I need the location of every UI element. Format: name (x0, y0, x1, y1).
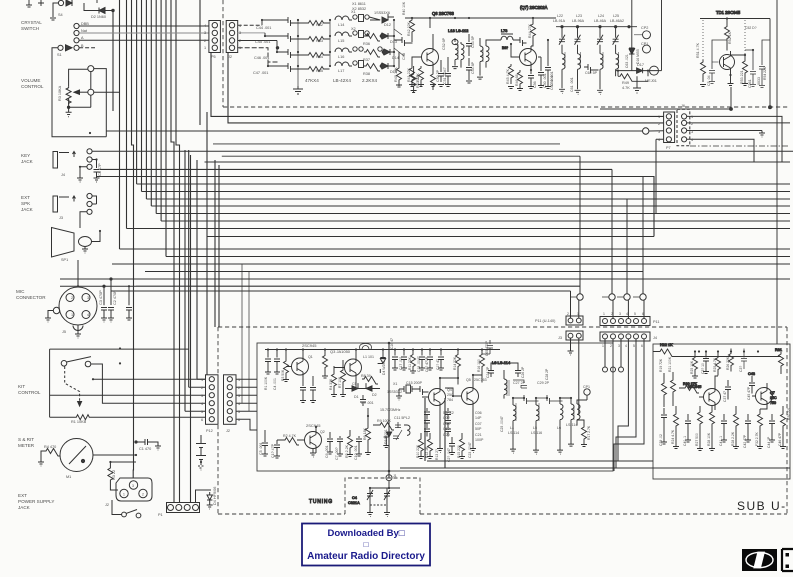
svg-text:D4 W2061: D4 W2061 (382, 359, 386, 375)
svg-text:1: 1 (71, 313, 73, 317)
R42 22K (410, 18, 415, 42)
svg-text:R54 22K: R54 22K (763, 66, 767, 80)
cap C3 470P (101, 286, 107, 322)
R4 33K / R7 10K (331, 366, 337, 397)
svg-text:4: 4 (87, 313, 89, 317)
svg-text:C16 47: C16 47 (390, 338, 394, 349)
top rail (700, 18, 770, 20)
svg-text:Downloaded By□: Downloaded By□ (328, 528, 405, 539)
svg-text:3: 3 (691, 130, 693, 134)
svg-text:L17: L17 (338, 69, 344, 73)
switch below (122, 512, 127, 517)
svg-text:R41 22K: R41 22K (407, 67, 411, 82)
C50 C51 caps (438, 60, 444, 87)
kit top wire (50, 348, 189, 350)
svg-text:R28 2.2K: R28 2.2K (731, 431, 735, 446)
svg-text:R25 4.7K: R25 4.7K (713, 357, 717, 372)
svg-text:C3 470P: C3 470P (99, 290, 103, 305)
svg-text:J3: J3 (59, 216, 63, 220)
hanging R/C left of Q1 (265, 350, 271, 375)
svg-text:R7 10K: R7 10K (338, 376, 342, 388)
svg-text:R53 221: R53 221 (740, 70, 744, 84)
svg-text:R1 10KB: R1 10KB (71, 420, 87, 424)
svg-text:Nat: Nat (81, 29, 88, 33)
svg-text:2: 2 (238, 386, 240, 390)
transistor Q1 (292, 358, 309, 375)
svg-text:JACK: JACK (18, 505, 31, 510)
bottom wire w/ D17 (616, 70, 662, 72)
svg-text:2: 2 (204, 39, 206, 43)
svg-text:C48: C48 (402, 53, 406, 60)
svg-text:B8?: B8? (502, 46, 508, 50)
svg-text:C54 8P: C54 8P (471, 61, 475, 74)
transistor Q5 (462, 388, 479, 405)
CP2 / CP1 circles (643, 31, 651, 39)
svg-text:1SS53X6: 1SS53X6 (374, 11, 390, 15)
svg-text:R43: R43 (416, 75, 420, 82)
svg-text:6: 6 (238, 418, 240, 422)
svg-text:X1 8611: X1 8611 (352, 2, 366, 6)
svg-text:C5 .04: C5 .04 (707, 75, 711, 86)
svg-text:C40 .1: C40 .1 (683, 436, 687, 446)
diode at S4 (66, 0, 72, 6)
svg-text:R32: R32 (316, 23, 323, 27)
svg-text:4: 4 (691, 138, 693, 142)
svg-text:POWER SUPPLY: POWER SUPPLY (18, 499, 54, 504)
D1 D2 pair (345, 383, 380, 391)
C12/C13 varicaps lower-left (393, 430, 402, 440)
svg-text:CP1: CP1 (641, 42, 648, 46)
svg-text:C61 .001: C61 .001 (570, 77, 574, 92)
C16/C17/R11/C18/C16b column (392, 350, 398, 371)
switch S4 (58, 0, 63, 5)
svg-text:784: 784 (447, 398, 453, 402)
R9 100K (373, 423, 394, 431)
svg-text:C44 .001: C44 .001 (256, 26, 271, 30)
svg-text:3: 3 (238, 394, 240, 398)
svg-text:C24 2P: C24 2P (486, 366, 490, 378)
diode D4 (207, 490, 212, 500)
svg-text:R28 10K: R28 10K (707, 432, 711, 446)
R44 27K (531, 22, 536, 46)
C43 (749, 376, 755, 394)
svg-text:KEY: KEY (21, 153, 30, 158)
right components C48 / R40 / R41 (394, 37, 413, 46)
svg-text:2: 2 (239, 39, 241, 43)
svg-text:L24: L24 (598, 14, 604, 18)
svg-text:C44 1P: C44 1P (767, 436, 771, 448)
svg-text:C60 .001: C60 .001 (550, 75, 554, 90)
svg-text:JACK: JACK (21, 159, 34, 164)
tuning dashed box (345, 478, 420, 514)
svg-text:6: 6 (642, 312, 644, 316)
svg-text:1: 1 (603, 312, 605, 316)
svg-text:5: 5 (238, 410, 240, 414)
svg-text:L1 101: L1 101 (363, 355, 374, 359)
svg-text:2.2KX4: 2.2KX4 (362, 78, 378, 83)
svg-text:5: 5 (633, 344, 635, 348)
transistor Q6 (422, 49, 439, 66)
svg-text:C8? 470P: C8? 470P (425, 356, 429, 372)
svg-text:TUNING: TUNING (309, 499, 333, 505)
svg-text:R24 4.7K: R24 4.7K (671, 429, 675, 444)
svg-text:(Q7) 2SC202A: (Q7) 2SC202A (520, 5, 548, 10)
C8 cap (94, 170, 100, 179)
svg-text:C07: C07 (475, 422, 482, 426)
svg-text:R12 1K: R12 1K (425, 446, 429, 458)
svg-text:MEJ01: MEJ01 (645, 79, 657, 83)
transistor Q7 (756, 388, 773, 405)
svg-text:14P: 14P (475, 416, 482, 420)
svg-text:KIT: KIT (18, 384, 25, 389)
svg-text:C4: C4 (352, 496, 357, 500)
svg-text:R15 220: R15 220 (457, 445, 461, 458)
svg-text:CP2: CP2 (641, 26, 648, 30)
svg-text:M1: M1 (66, 475, 71, 479)
ground S4 (50, 18, 56, 20)
L3 coil (504, 370, 507, 399)
svg-text:L5: L5 (533, 426, 537, 430)
drop to bus (730, 87, 732, 109)
svg-text:A: A (81, 36, 84, 40)
row feeds (262, 20, 286, 66)
svg-text:3: 3 (132, 484, 134, 488)
right components (731, 55, 749, 86)
svg-text:R13 2?: R13 2? (435, 449, 439, 460)
svg-text:C45 .001: C45 .001 (255, 40, 270, 44)
svg-text:EXT: EXT (18, 493, 27, 498)
svg-text:C39 .02: C39 .02 (659, 434, 663, 446)
svg-text:LS-114: LS-114 (566, 423, 577, 427)
D4 W2061 (378, 350, 386, 374)
svg-text:Q5: Q5 (466, 378, 471, 382)
switch pins (74, 23, 79, 28)
svg-text:C41 .1: C41 .1 (719, 436, 723, 446)
svg-text:15.7023MHz: 15.7023MHz (380, 408, 401, 412)
svg-text:1: 1 (658, 115, 660, 119)
svg-text:750: 750 (770, 401, 776, 405)
svg-text:D4 HF9/06: D4 HF9/06 (213, 487, 217, 505)
svg-text:R40 10K: R40 10K (402, 1, 406, 15)
svg-text:Q6 2SC763: Q6 2SC763 (432, 11, 455, 16)
svg-text:R45 4.7K: R45 4.7K (506, 68, 510, 84)
svg-text:P5: P5 (211, 55, 216, 59)
switch lever (67, 357, 92, 362)
svg-text:4: 4 (625, 344, 627, 348)
svg-text:C65 470P: C65 470P (485, 340, 489, 356)
svg-text:R46 68: R46 68 (515, 74, 519, 86)
svg-text:25C763: 25C763 (474, 378, 487, 382)
svg-text:C1? 47P: C1? 47P (271, 443, 275, 458)
svg-text:1: 1 (691, 115, 693, 119)
kit wires to P12 (93, 378, 206, 380)
R20 27K (679, 386, 699, 394)
svg-text:25C: 25C (770, 396, 777, 400)
svg-text:R3 50K: R3 50K (281, 369, 285, 381)
svg-text:X1: X1 (393, 382, 397, 386)
C27 cap between L4/L5 (513, 395, 539, 404)
svg-text:D2 1N60: D2 1N60 (91, 15, 106, 19)
svg-text:R35: R35 (316, 69, 323, 73)
R31 right (779, 352, 784, 374)
svg-text:1: 1 (123, 493, 125, 497)
svg-text:VOLUME: VOLUME (21, 78, 40, 83)
svg-text:5: 5 (634, 312, 636, 316)
svg-text:2: 2 (658, 122, 660, 126)
left components (700, 60, 706, 87)
svg-text:L22: L22 (557, 14, 563, 18)
svg-text:C28 2P: C28 2P (545, 368, 549, 380)
svg-text:EXT: EXT (21, 195, 30, 200)
svg-text:C02: C02 (443, 416, 450, 420)
solid board left (257, 343, 613, 471)
svg-text:CONNECTOR: CONNECTOR (16, 295, 46, 300)
svg-text:4: 4 (238, 402, 240, 406)
connector P11 wide 6pin (600, 317, 650, 326)
feed from J1 (370, 481, 400, 488)
svg-text:R25 10K: R25 10K (690, 360, 694, 374)
R22 1K top resistor (653, 349, 781, 357)
diode D16 (626, 48, 634, 54)
L5 column (533, 398, 539, 454)
svg-text:C5: C5 (352, 382, 357, 386)
svg-text:J1: J1 (393, 474, 397, 478)
svg-text:1SS53X2: 1SS53X2 (387, 390, 402, 394)
top rail (556, 26, 637, 28)
svg-text:LB-46A2: LB-46A2 (610, 19, 624, 23)
svg-text:S & RIT: S & RIT (18, 437, 34, 442)
svg-text:P11: P11 (653, 320, 659, 324)
svg-text:C46 .001: C46 .001 (254, 56, 269, 60)
svg-text:6: 6 (201, 418, 203, 422)
svg-text:2: 2 (611, 312, 613, 316)
svg-text:R3 10KA: R3 10KA (58, 85, 62, 101)
svg-text:C06: C06 (475, 411, 482, 415)
svg-text:C20: C20 (443, 433, 450, 437)
4 varicap + coil columns (559, 27, 565, 94)
row4 (286, 63, 330, 72)
svg-text:R9 100K: R9 100K (377, 419, 392, 423)
svg-text:R4 470: R4 470 (44, 445, 56, 449)
svg-text:J6: J6 (681, 104, 685, 108)
svg-text:C18 .0047: C18 .0047 (417, 356, 421, 372)
svg-text:B: B (81, 44, 84, 48)
svg-text:C6 .001: C6 .001 (325, 445, 329, 458)
svg-text:X2 8532: X2 8532 (352, 7, 366, 11)
svg-text:P1: P1 (158, 513, 163, 517)
svg-text:4: 4 (239, 24, 241, 28)
rails above mic (60, 260, 136, 286)
svg-text:C10 .001: C10 .001 (354, 445, 358, 460)
svg-text:LS 116: LS 116 (531, 431, 542, 435)
svg-text:C45 47P: C45 47P (747, 386, 751, 400)
svg-text:D13: D13 (390, 40, 397, 44)
svg-text:L18 LS-112: L18 LS-112 (448, 28, 469, 33)
solid board right (653, 344, 790, 479)
svg-text:2: 2 (201, 386, 203, 390)
svg-text:L3 LS-114: L3 LS-114 (492, 360, 511, 365)
svg-text:Q2: Q2 (320, 430, 325, 434)
svg-text:R31: R31 (775, 348, 782, 352)
svg-text:J4: J4 (61, 173, 65, 177)
resistor R4 470 (44, 449, 60, 457)
svg-text:CRYSTAL: CRYSTAL (21, 20, 42, 25)
row2 (286, 33, 330, 42)
svg-text:P11 (U-140): P11 (U-140) (535, 319, 556, 323)
C27 2P / C29 2P couplers (513, 380, 527, 398)
svg-text:R2 4.7K: R2 4.7K (283, 434, 297, 438)
svg-text:R36: R36 (363, 42, 370, 46)
wire switch to P12 pin4 (91, 364, 206, 403)
svg-text:TD1 2SC945: TD1 2SC945 (716, 10, 741, 15)
svg-text:50PX2: 50PX2 (443, 411, 454, 415)
svg-text:□: □ (364, 540, 369, 549)
vertical rails (298, 20, 394, 86)
grounds (77, 178, 83, 182)
svg-text:C9 .001: C9 .001 (361, 401, 374, 405)
svg-text:C03: C03 (443, 422, 450, 426)
C24 2P (488, 363, 499, 377)
caps between Q4/Q5 (445, 408, 451, 437)
C25 2P (508, 363, 521, 377)
dash-dot line right (690, 145, 790, 147)
svg-text:CONTROL: CONTROL (21, 84, 44, 89)
top terminal (88, 66, 94, 72)
svg-text:L14: L14 (338, 23, 344, 27)
svg-text:C1? 47: C1? 47 (436, 359, 440, 370)
capacitor C1 470 (136, 439, 161, 450)
output coil (477, 38, 483, 79)
svg-text:1: 1 (239, 46, 241, 50)
pot R3 10KA (66, 87, 71, 105)
svg-text:1: 1 (204, 46, 206, 50)
svg-text:D2: D2 (372, 393, 377, 397)
svg-text:C23 .0047: C23 .0047 (468, 442, 472, 458)
svg-text:L16: L16 (338, 55, 344, 59)
svg-text:CP1: CP1 (583, 385, 590, 389)
svg-text:Q1: Q1 (308, 355, 313, 359)
transistor Q3 (345, 359, 362, 376)
D3 M/201 (383, 428, 391, 448)
svg-text:C7 .00?: C7 .00? (335, 447, 339, 460)
svg-text:2SC945: 2SC945 (306, 423, 321, 428)
svg-text:C51 .0047: C51 .0047 (443, 67, 447, 84)
pin4 feed from below (656, 139, 664, 213)
dashed linkage with arrow (65, 367, 80, 404)
svg-text:CONTROL: CONTROL (18, 390, 41, 395)
svg-text:R21 100K: R21 100K (668, 356, 672, 372)
svg-text:Q7: Q7 (770, 391, 775, 395)
svg-text:L25: L25 (613, 14, 619, 18)
svg-text:C8 47P: C8 47P (98, 163, 102, 176)
svg-text:.0033: .0033 (757, 77, 761, 86)
svg-text:3: 3 (618, 344, 620, 348)
svg-text:C2 470P: C2 470P (113, 290, 117, 305)
svg-text:METER: METER (18, 443, 35, 448)
svg-text:4: 4 (626, 312, 628, 316)
connector J6 dashed (677, 109, 690, 146)
svg-text:3: 3 (239, 31, 241, 35)
transistor Q4 (429, 389, 446, 406)
svg-text:1: 1 (577, 312, 579, 316)
svg-text:SWITCH: SWITCH (21, 26, 39, 31)
varicap 1 (367, 488, 373, 501)
svg-text:R37: R37 (363, 58, 370, 62)
connector J4 6pin (600, 332, 650, 341)
svg-text:R33: R33 (316, 39, 323, 43)
C53 / C54 (466, 34, 472, 56)
svg-text:S4: S4 (58, 13, 63, 17)
svg-text:J4: J4 (653, 336, 657, 340)
plug J2 (116, 478, 152, 501)
svg-text:2: 2 (610, 344, 612, 348)
svg-text:1: 1 (238, 378, 240, 382)
svg-text:2SC945: 2SC945 (302, 343, 317, 348)
L1 101 coil on rail (360, 344, 372, 350)
switch circles (61, 361, 67, 367)
C9 .001 (360, 395, 366, 406)
wires out right (238, 24, 262, 26)
svg-text:SP1: SP1 (61, 258, 68, 262)
svg-text:R30 221: R30 221 (787, 407, 791, 420)
svg-text:C11 5P: C11 5P (394, 416, 406, 420)
R52 above transistor (725, 19, 730, 51)
svg-text:D17: D17 (637, 63, 644, 67)
svg-text:5: 5 (201, 410, 203, 414)
svg-text:4: 4 (658, 138, 660, 142)
svg-text:H22 1K: H22 1K (660, 343, 673, 347)
kit left vertical (49, 349, 51, 417)
MEJ01 output circle (650, 66, 659, 75)
svg-text:C29 2P: C29 2P (537, 381, 550, 385)
svg-text:R49: R49 (622, 81, 629, 85)
J1 drop (388, 445, 390, 478)
svg-text:R14 22K: R14 22K (453, 356, 457, 370)
svg-text:D16 MI55: D16 MI55 (636, 49, 640, 64)
svg-text:L73: L73 (501, 29, 507, 33)
svg-text:R11 22K: R11 22K (408, 356, 412, 370)
svg-text:25C945: 25C945 (688, 385, 701, 389)
cap C7 (126, 286, 132, 320)
svg-text:R3 22: R3 22 (112, 470, 116, 480)
svg-text:X2: X2 (351, 27, 356, 31)
svg-text:F32 2.7K: F32 2.7K (755, 432, 759, 446)
svg-text:R34: R34 (316, 55, 323, 59)
svg-text:JACK: JACK (21, 207, 34, 212)
dashed top box bottom (223, 106, 790, 108)
svg-text:LB-46A: LB-46A (594, 19, 607, 23)
C15 200P (417, 386, 429, 395)
svg-text:C46 47P: C46 47P (778, 432, 782, 446)
svg-text:C15 200P: C15 200P (406, 381, 423, 385)
svg-text:C561: C561 (748, 79, 752, 88)
svg-text:R42 22K: R42 22K (407, 21, 411, 36)
svg-text:4: 4 (201, 402, 203, 406)
L73 (494, 34, 516, 40)
svg-text:C42 47P: C42 47P (743, 434, 747, 448)
svg-text:D14: D14 (392, 56, 399, 60)
svg-text:C19: C19 (443, 427, 450, 431)
pin circle on wire y131 (643, 128, 649, 134)
svg-text:C1 470: C1 470 (139, 447, 151, 451)
C37 / C38 caps right of Q6b (725, 380, 731, 400)
Q2 section (305, 432, 322, 449)
connector P11 2pin (566, 316, 583, 325)
svg-text:4.7K: 4.7K (622, 86, 630, 90)
transistor Q7 (520, 49, 537, 66)
svg-text:Amateur Radio Directory: Amateur Radio Directory (307, 551, 425, 562)
bottom resistor/cap row under Q4/Q5 (418, 433, 424, 459)
